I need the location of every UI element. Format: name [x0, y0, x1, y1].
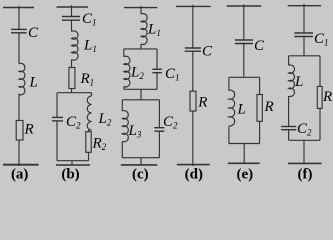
wire: (c) bottom rail [121, 164, 157, 166]
svg-text:R: R [197, 95, 207, 111]
wire: (b) resistor R1 to parallel block [71, 89, 73, 93]
svg-text:L: L [29, 75, 38, 91]
wire: (a) inductor L to resistor R [18, 94, 20, 121]
wire: (b) right branch top segment [91, 93, 93, 96]
wire: (e) parallel block top [229, 76, 260, 78]
wire: (c) top rail [124, 7, 157, 9]
wire: (c) block2 right upper segment [158, 100, 160, 128]
svg-text:(e): (e) [236, 167, 253, 183]
wire: (c) stub to bottom rail [140, 158, 142, 165]
resistor R2 (b) [86, 132, 91, 153]
wire: (f) capacitor C1 to parallel block [303, 37, 305, 56]
wire: (b) left branch lower segment [56, 121, 58, 161]
svg-text:(c): (c) [132, 167, 149, 183]
wire: (b) left branch upper segment [56, 93, 58, 118]
inductor L3 (c) [122, 111, 128, 142]
svg-text:C: C [202, 44, 213, 60]
wire: (f) right branch lower segment [319, 108, 321, 140]
wire: (a) top rail to capacitor C [18, 6, 20, 29]
wire: (b) parallel block top [57, 92, 92, 94]
wire: (f) bottom rail [288, 162, 322, 164]
inductor L1 (b) [72, 31, 79, 60]
capacitor C (d) [185, 48, 201, 51]
wire: (b) top rail [57, 6, 89, 8]
wire: (b) top rail to capacitor C1 [71, 5, 73, 16]
capacitor C2 (c) [154, 128, 164, 132]
capacitor C1 (c) [152, 69, 162, 72]
wire: (a) bottom rail [3, 164, 39, 166]
capacitor C2 (f) [281, 127, 296, 130]
wire: (c) block1 left upper stub [123, 49, 125, 57]
wire: (b) bottom rail [56, 164, 90, 166]
wire: (c) block 1 bottom [124, 88, 157, 90]
capacitor C (e) [235, 40, 253, 44]
svg-text:(b): (b) [61, 167, 79, 183]
wire: (e) parallel block bottom [229, 143, 260, 145]
inductor L2 (c) [124, 56, 130, 87]
wire: (e) right branch upper segment [259, 77, 261, 94]
inductor L2 (b) [87, 96, 91, 130]
resistor R1 (b) [69, 68, 75, 89]
wire: (d) top rail [176, 5, 211, 7]
wire: (c) block 2 top [122, 99, 159, 101]
wire: (c) block 1 top [124, 48, 157, 50]
wire: (f) parallel block top [289, 55, 320, 57]
svg-text:R: R [322, 89, 332, 105]
svg-text:L: L [237, 102, 246, 118]
wire: (f) stub to bottom rail [303, 140, 305, 163]
wire: (e) left branch upper stub [228, 77, 230, 88]
svg-text:L: L [294, 74, 303, 90]
resistor R (f) [317, 86, 322, 108]
wire: (f) parallel block bottom [289, 139, 320, 141]
svg-text:C: C [254, 38, 265, 54]
wire: (f) left branch lower segment [288, 130, 290, 140]
wire: (d) resistor R to bottom rail [192, 111, 194, 166]
wire: (c) block 2 bottom [122, 157, 159, 159]
wire: (a) capacitor C to inductor L [18, 33, 20, 64]
wire: (c) block1 left lower stub [123, 87, 125, 90]
wire: (e) capacitor C to parallel block [243, 44, 245, 77]
wire: (c) stub between blocks [140, 89, 142, 100]
wire: (e) top rail [227, 5, 262, 7]
wire: (f) right branch upper segment [319, 56, 321, 87]
resistor R (d) [190, 91, 196, 111]
resistor R (a) [16, 121, 23, 141]
wire: (f) top rail to capacitor C1 [303, 4, 305, 33]
capacitor C1 (f) [294, 33, 313, 37]
wire: (b) inductor L2 to resistor R2 [88, 130, 90, 132]
wire: (e) left branch lower stub [228, 126, 230, 143]
svg-text:(f): (f) [298, 167, 313, 183]
wire: (c) block2 right lower segment [158, 131, 160, 157]
resistor R (e) [257, 95, 262, 122]
wire: (c) inductor L1 to block 1 [140, 44, 142, 49]
wire: (b) capacitor C1 to inductor L1 [71, 20, 73, 31]
inductor L (f) [289, 65, 295, 96]
capacitor C2 (b) [52, 117, 63, 121]
wire: (e) right branch lower segment [259, 121, 261, 143]
wire: (a) resistor R to bottom rail [18, 140, 20, 166]
inductor L (a) [19, 63, 25, 94]
capacitor C1 (b) [62, 17, 80, 21]
wire: (c) block2 left upper stub [121, 100, 123, 111]
wire: (c) block1 right upper segment [156, 49, 158, 69]
wire: (b) stub to bottom rail [71, 161, 73, 165]
wire: (d) capacitor C to resistor R [192, 51, 194, 91]
wire: (e) stub to bottom rail [243, 144, 245, 164]
inductor L (e) [229, 89, 235, 126]
wire: (d) top rail to capacitor C [192, 5, 194, 48]
svg-text:R: R [264, 99, 274, 115]
wire: (e) top rail to capacitor C [243, 4, 245, 40]
svg-text:C: C [28, 25, 39, 41]
capacitor C (a) [11, 29, 27, 32]
svg-text:(d): (d) [185, 167, 203, 183]
wire: (e) bottom rail [228, 162, 260, 164]
wire: (b) right branch bottom segment [88, 152, 90, 160]
wire: (c) block2 left lower stub [121, 141, 123, 157]
wire: (b) inductor L1 to resistor R1 [71, 60, 73, 68]
wire: (d) bottom rail [177, 164, 210, 166]
wire: (c) block1 right lower segment [156, 73, 158, 89]
wire: (b) parallel block bottom [57, 160, 89, 162]
wire: (f) top rail [288, 5, 322, 7]
wire: (a) top rail [3, 7, 34, 9]
wire: (c) top rail to inductor L1 [140, 6, 142, 14]
svg-text:(a): (a) [11, 167, 29, 183]
wire: (f) left branch upper stub [288, 56, 290, 66]
wire: (f) left branch middle segment [288, 96, 290, 127]
inductor L1 (c) [141, 14, 147, 45]
svg-text:R: R [24, 122, 34, 138]
